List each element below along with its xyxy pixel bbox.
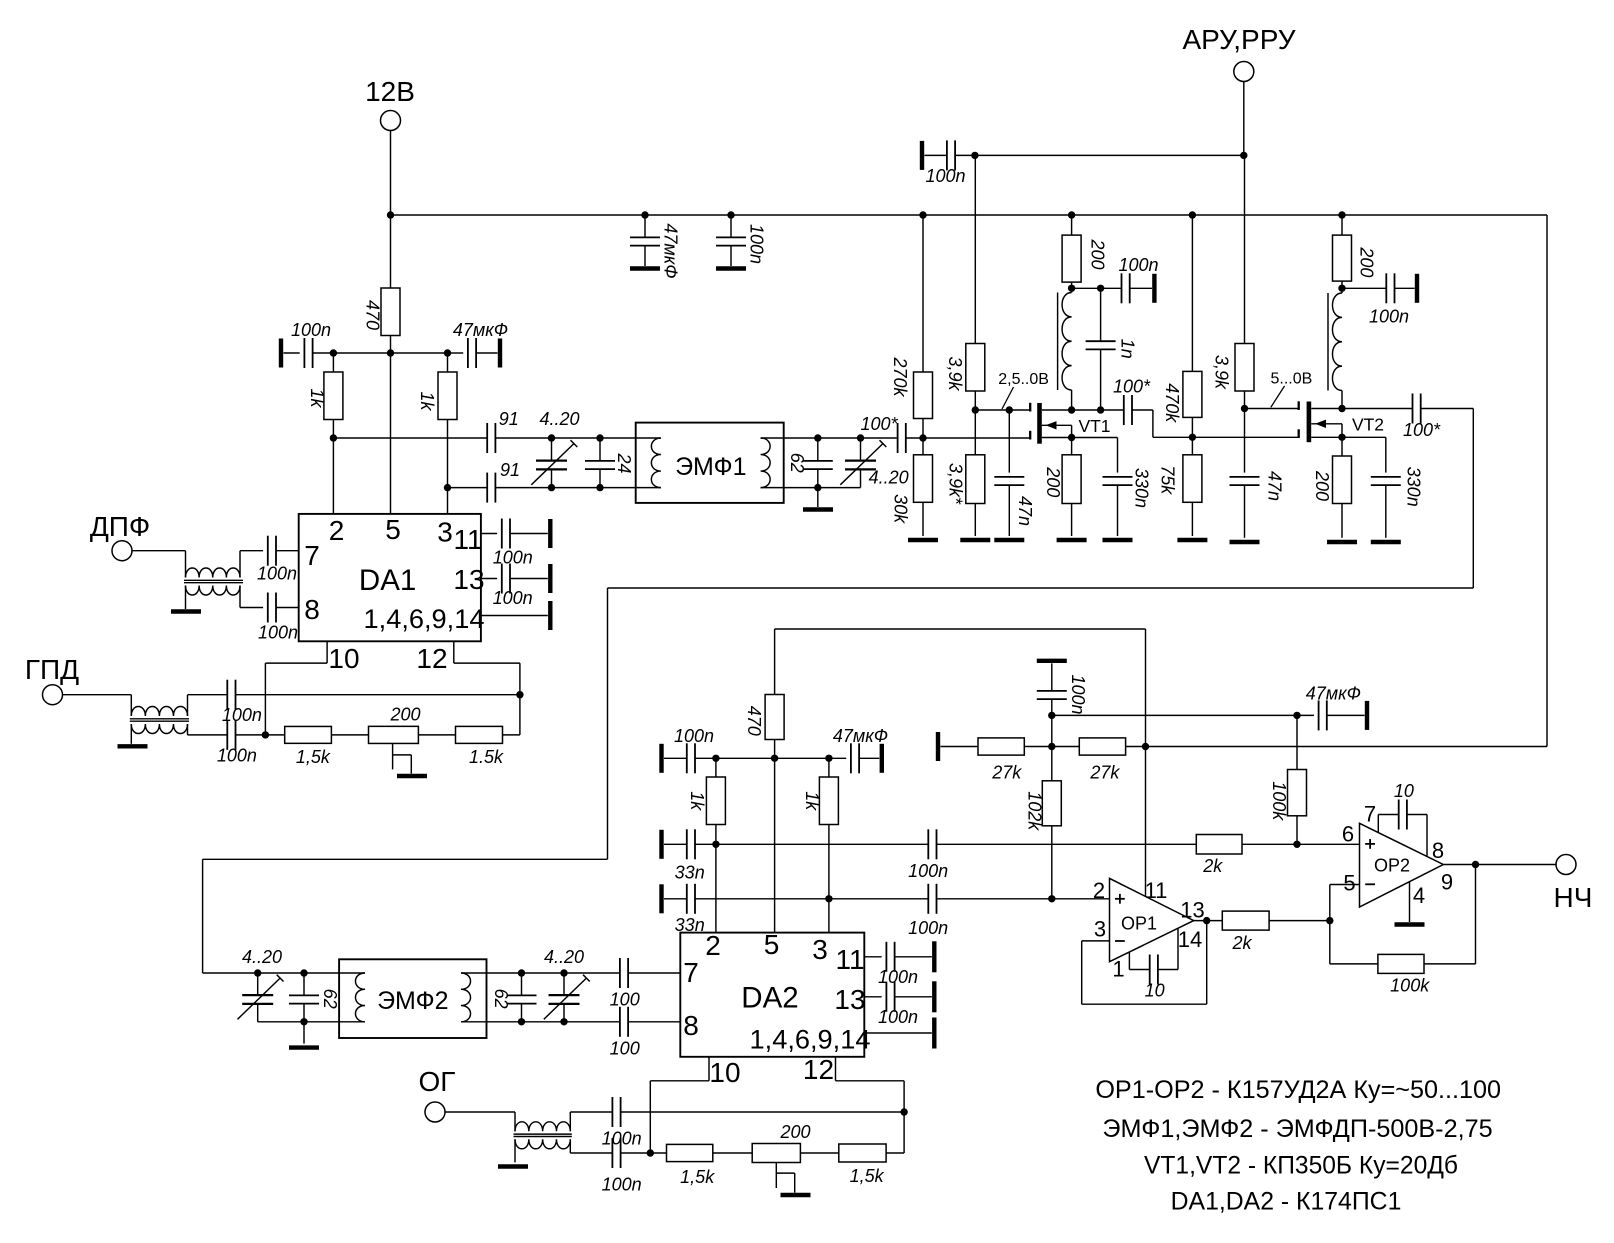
- svg-text:DA1,DA2 - К174ПС1: DA1,DA2 - К174ПС1: [1171, 1189, 1402, 1216]
- svg-text:1k: 1k: [802, 791, 822, 811]
- svg-text:8: 8: [683, 1010, 699, 1041]
- svg-text:470: 470: [744, 706, 764, 736]
- svg-text:ЭМФ2: ЭМФ2: [377, 987, 448, 1015]
- svg-text:100n: 100n: [1118, 255, 1158, 275]
- svg-text:4..20: 4..20: [242, 947, 282, 967]
- svg-text:1,5k: 1,5k: [680, 1167, 715, 1187]
- svg-text:91: 91: [499, 409, 519, 429]
- svg-text:DA1: DA1: [359, 564, 416, 597]
- svg-text:200: 200: [1088, 238, 1108, 269]
- svg-text:8: 8: [304, 594, 320, 625]
- svg-text:200: 200: [1043, 466, 1063, 497]
- svg-text:1k: 1k: [417, 391, 437, 411]
- svg-text:1k: 1k: [307, 388, 327, 408]
- svg-text:47мкФ: 47мкФ: [660, 223, 680, 278]
- svg-text:2: 2: [1093, 878, 1105, 903]
- svg-text:ГПД: ГПД: [25, 654, 79, 685]
- svg-text:100n: 100n: [258, 622, 298, 642]
- svg-text:330n: 330n: [1131, 468, 1151, 508]
- svg-text:1,5k: 1,5k: [850, 1166, 885, 1186]
- svg-text:100n: 100n: [674, 726, 714, 746]
- svg-text:100n: 100n: [493, 588, 533, 608]
- svg-text:ОР1-ОР2 - К157УД2А Ку=~50...10: ОР1-ОР2 - К157УД2А Ку=~50...100: [1095, 1076, 1501, 1104]
- svg-text:1,5k: 1,5k: [296, 747, 331, 767]
- svg-text:47мкФ: 47мкФ: [833, 726, 888, 746]
- svg-text:27k: 27k: [1089, 762, 1120, 782]
- svg-text:10: 10: [1394, 781, 1414, 801]
- svg-text:100k: 100k: [1269, 781, 1289, 821]
- svg-text:12В: 12В: [365, 76, 415, 107]
- svg-text:75k: 75k: [1157, 465, 1177, 495]
- svg-text:3: 3: [437, 517, 453, 548]
- svg-text:3,9k: 3,9k: [945, 356, 965, 391]
- svg-text:3,9k*: 3,9k*: [946, 463, 966, 505]
- svg-text:100n: 100n: [908, 861, 948, 881]
- svg-text:1.5k: 1.5k: [469, 747, 504, 767]
- svg-text:DA2: DA2: [741, 982, 798, 1015]
- svg-text:4..20: 4..20: [539, 409, 579, 429]
- svg-text:100n: 100n: [925, 166, 965, 186]
- svg-text:33n: 33n: [675, 862, 705, 882]
- svg-text:2,5..0В: 2,5..0В: [998, 371, 1049, 388]
- svg-text:91: 91: [500, 460, 520, 480]
- svg-text:62: 62: [491, 989, 511, 1009]
- svg-text:102k: 102k: [1024, 791, 1044, 831]
- svg-text:3,9k: 3,9k: [1211, 355, 1231, 390]
- svg-text:5: 5: [385, 514, 401, 545]
- svg-text:200: 200: [389, 704, 420, 724]
- svg-text:2k: 2k: [1231, 933, 1252, 953]
- svg-text:ЭМФ1: ЭМФ1: [675, 453, 746, 481]
- svg-text:12: 12: [416, 643, 447, 674]
- svg-text:100n: 100n: [878, 1007, 918, 1027]
- svg-text:100n: 100n: [1369, 307, 1409, 327]
- svg-text:100*: 100*: [1113, 377, 1151, 397]
- svg-text:100: 100: [610, 1038, 640, 1058]
- svg-text:11: 11: [453, 524, 482, 555]
- svg-text:200: 200: [1312, 470, 1332, 501]
- svg-text:100n: 100n: [908, 918, 948, 938]
- svg-text:1,4,6,9,14: 1,4,6,9,14: [750, 1024, 871, 1055]
- svg-text:VT1,VT2 - КП350Б Ку=20Дб: VT1,VT2 - КП350Б Ку=20Дб: [1144, 1153, 1458, 1180]
- svg-text:2: 2: [329, 515, 345, 546]
- svg-text:100*: 100*: [1403, 420, 1441, 440]
- svg-text:13: 13: [453, 564, 484, 595]
- svg-text:10: 10: [328, 643, 359, 674]
- svg-text:1,4,6,9,14: 1,4,6,9,14: [364, 603, 485, 634]
- svg-text:27k: 27k: [991, 762, 1022, 782]
- svg-text:4: 4: [1413, 883, 1425, 908]
- svg-text:100n: 100n: [746, 224, 766, 264]
- svg-text:14: 14: [1178, 927, 1202, 952]
- svg-text:10: 10: [1145, 980, 1165, 1000]
- svg-text:100n: 100n: [602, 1175, 642, 1195]
- svg-text:8: 8: [1432, 838, 1444, 863]
- svg-text:100n: 100n: [291, 320, 331, 340]
- svg-text:ОР1: ОР1: [1121, 914, 1157, 934]
- svg-text:100n: 100n: [1068, 674, 1088, 714]
- svg-text:7: 7: [304, 540, 320, 571]
- svg-text:АРУ,РРУ: АРУ,РРУ: [1182, 24, 1295, 55]
- svg-text:7: 7: [683, 957, 699, 988]
- svg-text:47n: 47n: [1265, 471, 1285, 501]
- svg-text:5...0В: 5...0В: [1270, 371, 1312, 388]
- svg-text:470: 470: [362, 300, 382, 330]
- svg-text:11: 11: [1145, 878, 1168, 903]
- svg-text:ЭМФ1,ЭМФ2 - ЭМФДП-500В-2,75: ЭМФ1,ЭМФ2 - ЭМФДП-500В-2,75: [1102, 1115, 1492, 1143]
- svg-text:30k: 30k: [891, 494, 911, 524]
- svg-text:4..20: 4..20: [544, 947, 584, 967]
- svg-text:4..20: 4..20: [869, 468, 909, 488]
- svg-text:100n: 100n: [602, 1128, 642, 1148]
- svg-text:62: 62: [787, 453, 807, 473]
- svg-text:470k: 470k: [1162, 383, 1182, 423]
- svg-text:100*: 100*: [860, 414, 898, 434]
- svg-text:1: 1: [1112, 956, 1124, 981]
- svg-text:330n: 330n: [1403, 467, 1423, 507]
- svg-text:24: 24: [614, 452, 634, 473]
- svg-text:5: 5: [764, 929, 780, 960]
- svg-text:100n: 100n: [878, 967, 918, 987]
- svg-text:13: 13: [1180, 898, 1204, 923]
- svg-text:9: 9: [1441, 870, 1453, 895]
- svg-text:100k: 100k: [1390, 976, 1430, 996]
- svg-text:200: 200: [779, 1122, 810, 1142]
- svg-text:100n: 100n: [217, 745, 257, 765]
- svg-text:62: 62: [320, 989, 340, 1009]
- svg-text:1k: 1k: [687, 791, 707, 811]
- svg-text:5: 5: [1343, 871, 1355, 896]
- svg-text:100n: 100n: [222, 705, 262, 725]
- svg-text:12: 12: [803, 1054, 834, 1085]
- svg-text:270k: 270k: [890, 356, 910, 397]
- svg-text:47мкФ: 47мкФ: [1306, 684, 1361, 704]
- svg-text:3: 3: [812, 934, 828, 965]
- svg-text:7: 7: [1364, 802, 1376, 827]
- svg-text:2k: 2k: [1202, 856, 1223, 876]
- svg-text:ДПФ: ДПФ: [90, 511, 150, 542]
- svg-text:6: 6: [1342, 822, 1354, 847]
- svg-text:11: 11: [835, 944, 864, 975]
- svg-text:ОГ: ОГ: [419, 1066, 456, 1097]
- svg-text:100n: 100n: [493, 548, 533, 568]
- svg-text:47мкФ: 47мкФ: [453, 320, 508, 340]
- svg-text:НЧ: НЧ: [1554, 882, 1593, 913]
- svg-text:10: 10: [709, 1057, 740, 1088]
- svg-text:VT2: VT2: [1352, 415, 1384, 435]
- svg-text:1n: 1n: [1117, 339, 1137, 359]
- svg-text:100: 100: [610, 990, 640, 1010]
- svg-text:2: 2: [705, 930, 721, 961]
- svg-text:47n: 47n: [1015, 496, 1035, 526]
- svg-text:200: 200: [1356, 246, 1376, 277]
- svg-text:ОР2: ОР2: [1374, 856, 1410, 876]
- svg-text:33n: 33n: [675, 915, 705, 935]
- svg-text:13: 13: [834, 984, 865, 1015]
- svg-text:3: 3: [1094, 917, 1106, 942]
- svg-text:VT1: VT1: [1078, 416, 1110, 436]
- svg-text:100n: 100n: [257, 564, 297, 584]
